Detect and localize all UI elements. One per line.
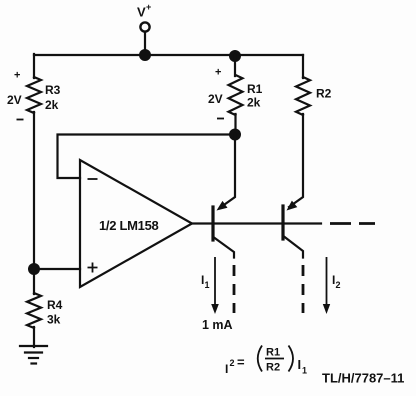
resistor R3 [27, 77, 41, 113]
label I1 [201, 273, 210, 290]
svg-text:R2: R2 [266, 362, 280, 374]
svg-text:+: + [14, 70, 20, 82]
transistor Q1 [213, 207, 234, 258]
svg-text:2: 2 [336, 280, 341, 290]
wire: R1 branch [234, 55, 237, 135]
resistor R4 [27, 293, 41, 328]
transistor Q2 [283, 206, 303, 258]
wire: Q2 collector dashed [302, 265, 305, 313]
wire: common base line from op-amp output [192, 222, 321, 224]
svg-text:R3: R3 [45, 83, 61, 97]
svg-text:R2: R2 [316, 87, 332, 101]
Q2 emitter arrow [287, 201, 298, 211]
label R3 2k [45, 83, 61, 112]
wire: Q1 collector dashed [233, 265, 236, 313]
formula I2 = (R1/R2) I1 [225, 346, 307, 377]
wire: top supply rail [34, 54, 303, 56]
resistor R1 [229, 75, 243, 115]
ground [20, 346, 47, 364]
svg-text:3k: 3k [47, 313, 61, 327]
label 2V with polarity (middle) [208, 67, 224, 119]
current arrow I2 [323, 257, 330, 314]
svg-text:TL/H/7787–11: TL/H/7787–11 [322, 371, 404, 386]
label I2 [332, 273, 341, 290]
wire: Q1 emitter from R1 [217, 134, 236, 211]
resistor R2 [296, 77, 310, 115]
svg-text:I: I [225, 362, 228, 376]
junction: feedback tap at R1 bottom [229, 129, 241, 141]
junction: non-inverting input on left branch [28, 263, 40, 275]
svg-text:R4: R4 [47, 298, 63, 312]
wire: non-inverting input [34, 268, 80, 270]
svg-text:2V: 2V [208, 92, 223, 106]
V+ label [137, 2, 151, 20]
svg-text:2k: 2k [45, 98, 59, 112]
svg-text:1: 1 [302, 366, 307, 376]
label R1 2k [247, 82, 263, 110]
svg-text:I: I [298, 357, 302, 372]
svg-text:2k: 2k [247, 96, 261, 110]
junction: R1 top on supply rail [229, 50, 241, 62]
svg-text:+: + [146, 2, 151, 12]
svg-text:1/2 LM158: 1/2 LM158 [99, 218, 159, 233]
junction: V+ on supply rail [139, 49, 151, 61]
svg-text:+: + [215, 67, 221, 79]
svg-text:V: V [137, 5, 146, 20]
wire: feedback from R1 bottom to inverting input [58, 135, 236, 179]
current arrow I1 [211, 257, 219, 314]
wire: R2 branch [289, 55, 303, 207]
svg-text:=: = [237, 355, 245, 370]
svg-text:1 mA: 1 mA [202, 318, 233, 332]
wire: left branch vertical [33, 54, 35, 347]
V+ terminal [140, 22, 149, 55]
wire: dashed base line continuation [330, 222, 375, 225]
svg-text:2: 2 [230, 358, 235, 368]
svg-text:R1: R1 [266, 347, 280, 359]
label 2V with polarity (left) [7, 70, 24, 120]
svg-text:R1: R1 [247, 82, 263, 96]
svg-text:2V: 2V [7, 93, 22, 107]
label R4 3k [47, 298, 63, 327]
svg-text:1: 1 [205, 280, 210, 290]
op-amp U1 1/2 LM158 [80, 160, 192, 287]
